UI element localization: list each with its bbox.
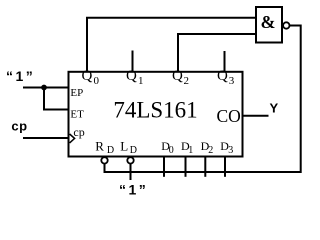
pin label Q0 xyxy=(82,68,100,87)
wire CO output xyxy=(243,115,269,117)
svg-text:Y: Y xyxy=(270,101,279,116)
pin label RD xyxy=(95,138,114,156)
svg-text:D: D xyxy=(130,145,137,156)
svg-text:74LS161: 74LS161 xyxy=(113,98,197,123)
svg-text:“1”: “1” xyxy=(119,182,148,198)
pin label Q3 xyxy=(217,68,235,87)
wire D1 stub xyxy=(185,157,187,177)
inversion bubble on LD pin xyxy=(127,157,133,163)
inversion bubble on NAND output xyxy=(283,22,289,28)
svg-text:D: D xyxy=(107,145,114,156)
svg-text:&: & xyxy=(261,12,276,32)
pin label D0 xyxy=(161,139,174,156)
svg-text:Q: Q xyxy=(217,68,228,84)
pin label Q2 xyxy=(172,68,189,87)
svg-text:R: R xyxy=(95,138,104,153)
svg-text:“1”: “1” xyxy=(6,68,35,84)
svg-text:L: L xyxy=(120,138,128,153)
svg-text:2: 2 xyxy=(184,75,190,87)
wire Q0 up and over to NAND input 1 xyxy=(87,18,256,72)
svg-text:CO: CO xyxy=(217,106,241,126)
pin label D2 xyxy=(201,139,214,156)
pin label LD xyxy=(120,138,137,156)
wire D0 stub xyxy=(163,157,165,177)
pin label D3 xyxy=(220,139,233,156)
wire LD pin down to "1" xyxy=(130,164,132,180)
clock edge triangle on CP pin xyxy=(70,134,75,143)
wire D3 stub xyxy=(224,157,226,177)
counter U1 74LS161 body xyxy=(69,72,243,157)
wire Q3 stub xyxy=(224,51,226,72)
wire CP input xyxy=(23,137,69,139)
pin label Q1 xyxy=(126,68,144,87)
wire D2 stub xyxy=(204,157,206,177)
wire from junction down to ET input xyxy=(44,88,69,110)
svg-text:0: 0 xyxy=(169,145,174,156)
svg-text:0: 0 xyxy=(94,75,100,87)
pin label D1 xyxy=(181,139,193,156)
svg-text:1: 1 xyxy=(138,75,144,87)
wire Q2 up and over to NAND input 2 xyxy=(178,34,256,72)
svg-text:3: 3 xyxy=(229,75,235,87)
NAND gate G1 body xyxy=(256,7,282,43)
inversion bubble on RD pin xyxy=(101,157,107,163)
wire NAND output down right side to RD bus xyxy=(105,26,301,173)
wire Q1 stub xyxy=(132,51,134,72)
svg-text:3: 3 xyxy=(228,145,233,156)
svg-text:cp: cp xyxy=(11,119,27,134)
svg-text:EP: EP xyxy=(70,87,83,99)
svg-text:cp: cp xyxy=(73,125,84,139)
svg-text:ET: ET xyxy=(70,109,84,121)
junction node on EP wire xyxy=(41,85,47,91)
wire EP input xyxy=(23,87,69,89)
svg-text:2: 2 xyxy=(208,145,213,156)
svg-text:1: 1 xyxy=(188,145,193,156)
